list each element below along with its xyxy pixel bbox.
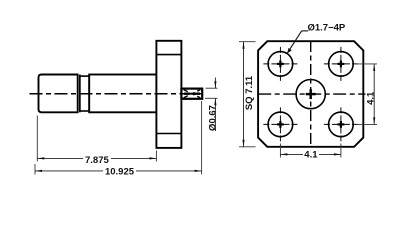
ring step between body and groove — [79, 75, 81, 113]
svg-text:4.1: 4.1 — [304, 150, 318, 161]
center bore crosshair — [306, 93, 316, 95]
pin hatch diagonal 2 — [184, 90, 201, 98]
dimension o0.67 line above — [214, 78, 216, 89]
extension line flange-left face — [155, 151, 157, 162]
dimension 4.1 bottom extension right — [340, 144, 342, 158]
pin hatch diagonal 1 — [184, 90, 201, 98]
label o1.7-4P leader — [287, 31, 301, 53]
mounting hole H4 bottom-right — [324, 107, 358, 141]
svg-text:SQ 7.11: SQ 7.11 — [244, 75, 255, 110]
mounting hole H2 top-right — [324, 47, 358, 81]
dimension o0.67 extension bottom — [205, 97, 218, 99]
dimension 4.1 right extension top — [356, 63, 377, 65]
extension line body-left for 10.925 — [34, 164, 36, 175]
flange octagon (front view) — [258, 41, 363, 147]
pin center thick line — [184, 92, 190, 94]
dimension o0.67 line below — [214, 98, 216, 131]
connector body B2 (main barrel, side view) — [89, 75, 156, 113]
dimension o0.67 extension top — [206, 87, 218, 89]
groove (reduced diameter section) — [80, 76, 89, 111]
vertical centerline front view — [310, 41, 312, 147]
dimension 4.1 bottom extension left — [279, 144, 281, 158]
dimension SQ 7.11 extension bottom — [239, 146, 256, 148]
dimension 10.925 — [35, 170, 202, 172]
svg-text:Ø1.7−4P: Ø1.7−4P — [308, 23, 346, 34]
center bore circle — [296, 80, 325, 109]
extension line body-left for 7.875 — [36, 116, 38, 162]
extension line pin tip — [201, 101, 203, 175]
svg-text:7.875: 7.875 — [85, 155, 109, 166]
flange chamfer edge top — [156, 54, 181, 56]
connector body B1 (outer sleeve, side view) — [39, 75, 78, 113]
svg-text:4.1: 4.1 — [366, 91, 377, 105]
flange (side view) — [156, 41, 181, 148]
dimension 4.1 right extension bottom — [356, 123, 377, 125]
wire centerline left view — [30, 93, 202, 95]
flange chamfer edge bottom — [156, 133, 181, 135]
dimension 7.875 — [37, 157, 156, 159]
horizontal centerline front view — [258, 93, 365, 95]
mounting hole H3 bottom-left — [263, 107, 297, 141]
svg-text:10.925: 10.925 — [105, 166, 135, 177]
dimension 4.1 right line — [373, 64, 375, 125]
mounting hole H1 top-left — [263, 47, 297, 81]
dimension SQ 7.11 line — [243, 42, 245, 147]
center pin (side view, hatched) — [181, 89, 202, 99]
dimension SQ 7.11 extension top — [239, 41, 256, 43]
svg-text:Ø0.67: Ø0.67 — [208, 105, 219, 131]
dimension 4.1 bottom line — [280, 153, 341, 155]
